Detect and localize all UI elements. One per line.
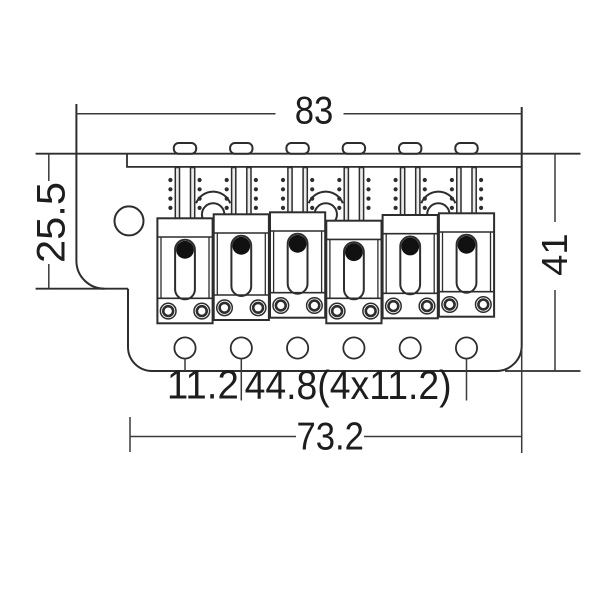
string hole 6 (456, 337, 477, 358)
spring dots saddle 5 left (394, 178, 398, 210)
spring dots saddle 1 right (198, 178, 202, 210)
saddle 4 (326, 221, 381, 324)
dimension 83 line (76, 113, 521, 115)
saddle 2 (214, 214, 269, 320)
41 dimension bottom extension line (505, 370, 581, 372)
dimension 41 line (554, 154, 556, 371)
intonation screw head tab 5 (399, 143, 421, 154)
spring dots saddle 4 right (366, 178, 370, 210)
spring dots saddle 1 left (168, 178, 172, 210)
intonation screw head tab 6 (455, 143, 477, 154)
string hole 4 (343, 337, 364, 358)
spring dots saddle 4 left (337, 178, 341, 210)
spring dots saddle 5 right (423, 178, 427, 210)
string hole 3 (287, 337, 308, 358)
spring dots saddle 6 left (450, 178, 454, 210)
tremolo block arch 2 (309, 192, 343, 226)
baseplate outline (76, 104, 521, 371)
spring dots saddle 3 right (310, 178, 314, 210)
svg-text:25.5: 25.5 (30, 182, 74, 263)
intonation screw head tab 3 (286, 143, 308, 154)
height screws saddle 2 (232, 168, 251, 215)
intonation screw head tab 1 (174, 143, 196, 154)
saddle 5 (383, 215, 438, 318)
height screws saddle 4 (344, 168, 363, 221)
height screws saddle 5 (401, 168, 420, 216)
spring dots saddle 2 left (225, 178, 229, 210)
saddle 6 (439, 213, 494, 316)
tremolo block arch 1 (196, 192, 230, 226)
spring dots saddle 6 right (479, 178, 483, 210)
svg-text:73.2: 73.2 (296, 415, 364, 458)
tremolo block arch 3 (421, 192, 455, 226)
height screws saddle 1 (175, 168, 194, 219)
height screws saddle 3 (288, 168, 307, 213)
intonation screw head tab 4 (343, 143, 365, 154)
svg-text:83: 83 (295, 90, 334, 133)
spring dots saddle 3 left (281, 178, 285, 210)
dimension 25.5 line (48, 154, 50, 289)
string hole 1 (174, 337, 195, 358)
string hole 2 (231, 337, 252, 358)
extension line from string hole 2 (240, 359, 242, 401)
saddle 1 (157, 218, 212, 323)
string hole 5 (400, 337, 421, 358)
extension line from string hole 6 (466, 359, 468, 401)
saddle 3 (270, 212, 325, 317)
svg-text:44.8(4x11.2): 44.8(4x11.2) (245, 362, 452, 408)
height screws saddle 6 (457, 168, 476, 214)
baseplate top edge line with 25.5 and 41 extension lines (36, 153, 581, 155)
lip plate under string tabs (127, 154, 522, 167)
spring dots saddle 2 right (254, 178, 258, 210)
intonation screw head tab 2 (230, 143, 252, 154)
svg-text:41: 41 (534, 233, 575, 276)
extension line from string hole 1 (184, 359, 186, 372)
svg-text:11.2: 11.2 (167, 362, 239, 408)
mounting hole on left tab (115, 206, 144, 235)
dimension 73.2 lines (130, 350, 522, 453)
baseplate left tab bottom edge with 25.5 extension line (36, 288, 128, 290)
